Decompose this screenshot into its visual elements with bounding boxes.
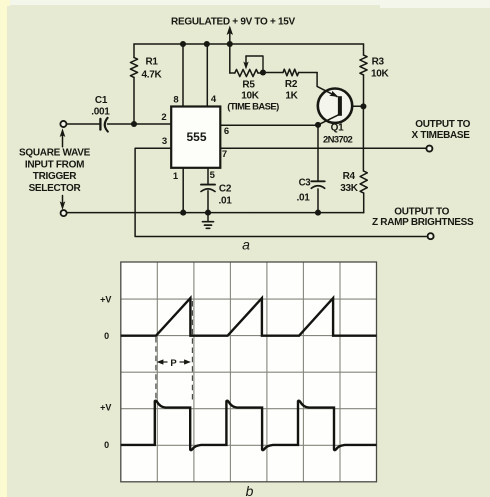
svg-text:(TIME BASE): (TIME BASE) xyxy=(227,101,279,112)
svg-text:2: 2 xyxy=(161,112,166,123)
svg-text:3: 3 xyxy=(162,136,167,147)
svg-text:R3: R3 xyxy=(372,57,385,68)
svg-text:SQUARE WAVE: SQUARE WAVE xyxy=(19,148,91,159)
svg-text:C2: C2 xyxy=(219,184,232,195)
svg-text:555: 555 xyxy=(186,130,206,144)
svg-text:REGULATED + 9V TO + 15V: REGULATED + 9V TO + 15V xyxy=(171,17,296,28)
svg-text:Q1: Q1 xyxy=(331,123,344,134)
svg-text:R1: R1 xyxy=(146,57,159,68)
svg-text:.01: .01 xyxy=(218,196,232,207)
svg-text:.01: .01 xyxy=(296,193,310,204)
svg-text:2N3702: 2N3702 xyxy=(323,134,352,145)
svg-text:4: 4 xyxy=(211,94,217,105)
svg-text:33K: 33K xyxy=(340,183,359,194)
svg-text:5: 5 xyxy=(210,170,216,181)
svg-text:7: 7 xyxy=(222,149,227,160)
svg-text:C3: C3 xyxy=(299,177,312,188)
svg-text:OUTPUT TO: OUTPUT TO xyxy=(394,207,449,218)
svg-text:R5: R5 xyxy=(242,79,255,90)
svg-text:b: b xyxy=(246,483,254,497)
svg-text:10K: 10K xyxy=(241,90,260,101)
svg-text:0: 0 xyxy=(104,331,109,341)
svg-text:a: a xyxy=(242,237,250,253)
svg-text:8: 8 xyxy=(173,95,178,106)
svg-text:INPUT FROM: INPUT FROM xyxy=(25,159,84,170)
svg-text:Z RAMP BRIGHTNESS: Z RAMP BRIGHTNESS xyxy=(372,217,474,228)
svg-text:TRIGGER: TRIGGER xyxy=(33,171,78,182)
svg-text:6: 6 xyxy=(224,126,229,137)
svg-text:X TIMEBASE: X TIMEBASE xyxy=(412,130,471,141)
svg-text:C1: C1 xyxy=(95,95,108,106)
svg-text:1: 1 xyxy=(173,171,179,182)
svg-text:R4: R4 xyxy=(343,171,356,182)
svg-text:4.7K: 4.7K xyxy=(142,70,163,81)
svg-text:10K: 10K xyxy=(371,68,390,79)
svg-text:+V: +V xyxy=(100,294,111,304)
svg-text:.001: .001 xyxy=(91,106,110,117)
svg-text:SELECTOR: SELECTOR xyxy=(29,183,82,194)
svg-text:1K: 1K xyxy=(285,90,298,101)
svg-text:+V: +V xyxy=(100,403,111,413)
svg-text:R2: R2 xyxy=(285,79,298,90)
svg-text:0: 0 xyxy=(104,440,109,450)
svg-text:OUTPUT TO: OUTPUT TO xyxy=(415,119,470,130)
svg-text:P: P xyxy=(170,358,177,369)
